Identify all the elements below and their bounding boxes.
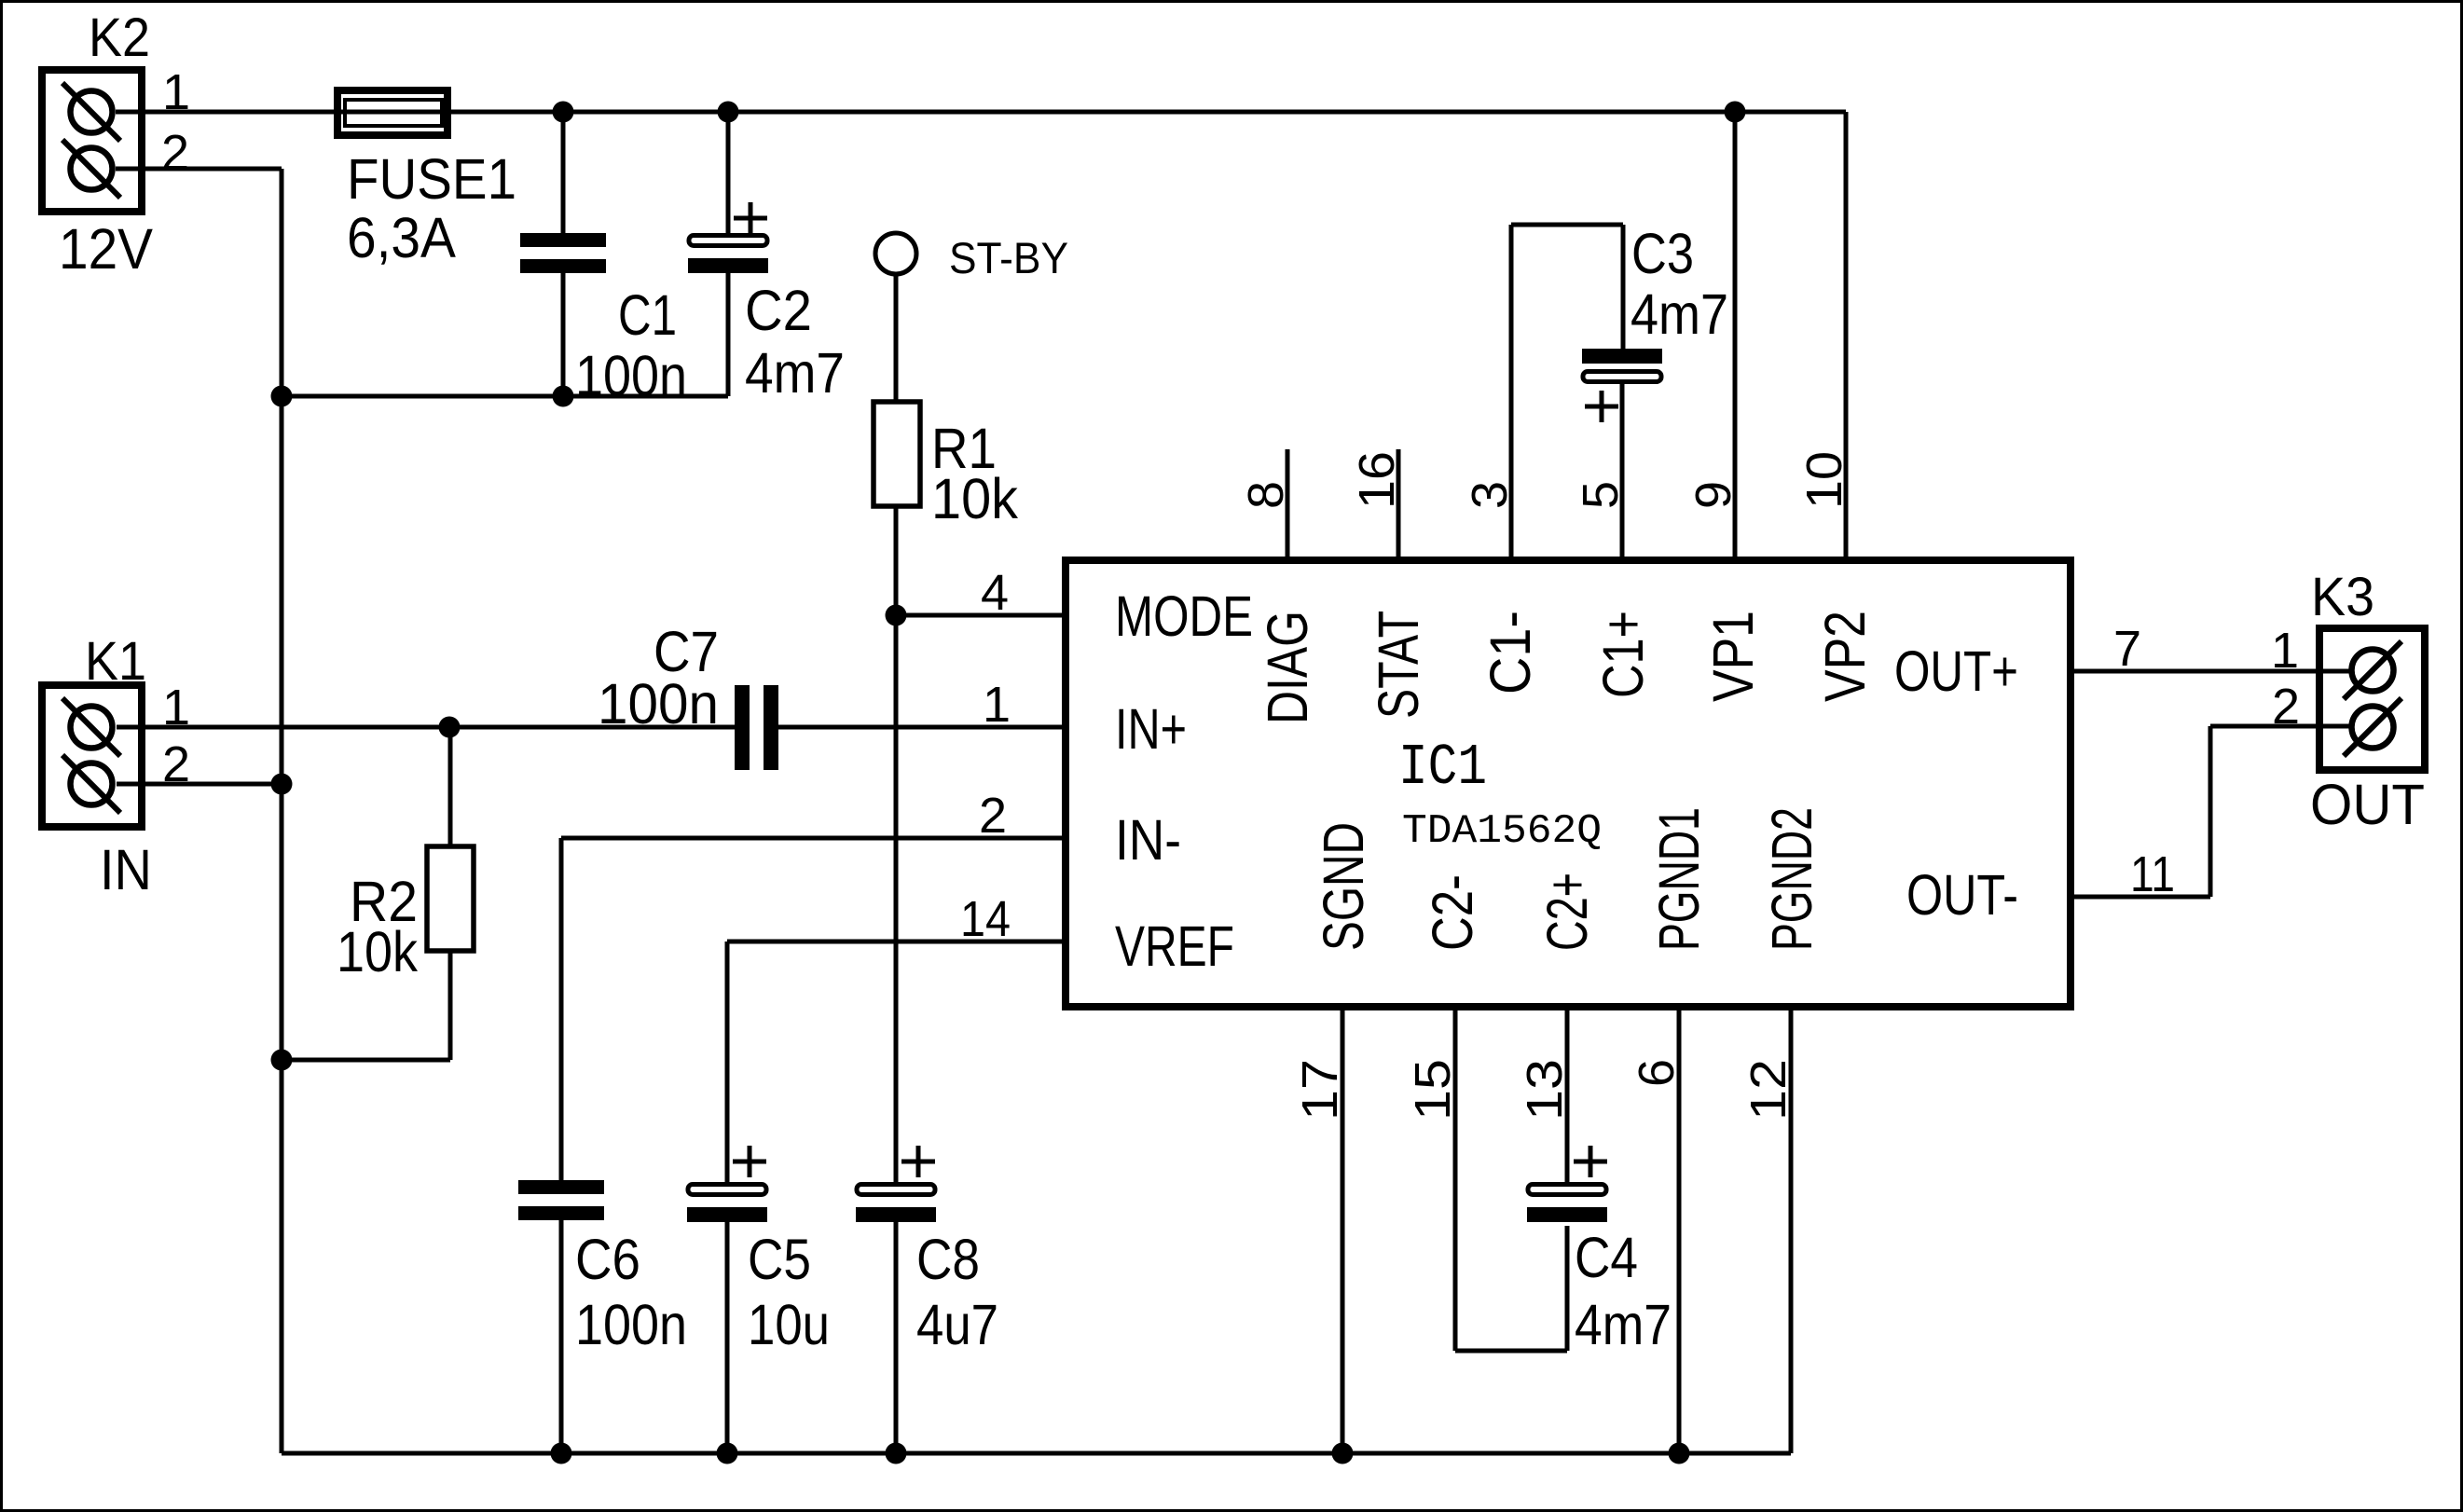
svg-text:VREF: VREF [1115,914,1234,978]
svg-text:STAT: STAT [1367,611,1430,719]
svg-text:12V: 12V [59,217,153,281]
svg-text:IN-: IN- [1115,808,1181,872]
svg-text:6,3A: 6,3A [347,206,456,269]
svg-text:5: 5 [1573,481,1629,509]
svg-text:10u: 10u [748,1293,830,1356]
svg-text:PGND1: PGND1 [1647,807,1711,951]
svg-text:OUT+: OUT+ [1894,639,2018,703]
svg-text:MODE: MODE [1115,584,1253,648]
svg-text:C2: C2 [745,279,812,342]
svg-text:1: 1 [162,64,190,120]
svg-text:6: 6 [1629,1059,1685,1087]
svg-text:4m7: 4m7 [745,341,845,405]
svg-text:C5: C5 [748,1228,811,1291]
svg-text:8: 8 [1238,481,1294,509]
svg-text:C6: C6 [575,1228,640,1291]
svg-text:ST-BY: ST-BY [949,233,1068,282]
svg-text:10k: 10k [931,467,1018,530]
svg-text:2: 2 [2272,679,2300,735]
svg-text:IN: IN [100,838,152,901]
svg-text:OUT: OUT [2310,773,2425,836]
svg-text:VP1: VP1 [1701,611,1765,702]
svg-text:1: 1 [162,680,190,735]
svg-text:100n: 100n [575,1293,687,1356]
svg-text:K3: K3 [2311,567,2374,627]
svg-text:C2-: C2- [1421,874,1484,951]
svg-text:TDA1562Q: TDA1562Q [1402,808,1602,855]
svg-text:10: 10 [1796,451,1852,509]
svg-text:13: 13 [1517,1059,1573,1120]
svg-text:C4: C4 [1575,1226,1638,1289]
svg-text:4m7: 4m7 [1575,1293,1672,1356]
svg-text:11: 11 [2130,846,2175,902]
svg-text:3: 3 [1462,481,1518,509]
svg-text:1: 1 [2271,623,2299,679]
svg-text:C2+: C2+ [1535,873,1599,951]
svg-text:PGND2: PGND2 [1760,807,1823,951]
svg-text:14: 14 [960,891,1011,947]
svg-text:4: 4 [981,565,1009,621]
svg-text:SGND: SGND [1312,822,1375,951]
svg-text:4u7: 4u7 [916,1293,998,1356]
svg-text:2: 2 [979,788,1007,844]
svg-text:1: 1 [983,677,1011,733]
svg-text:7: 7 [2113,621,2141,677]
svg-text:K2: K2 [89,7,150,68]
svg-text:100n: 100n [575,344,687,407]
svg-text:C1-: C1- [1479,611,1542,694]
svg-text:DIAG: DIAG [1256,611,1319,724]
svg-text:FUSE1: FUSE1 [347,147,516,211]
svg-text:16: 16 [1349,451,1405,509]
svg-text:15: 15 [1405,1059,1461,1120]
svg-text:IN+: IN+ [1115,697,1187,761]
svg-text:C8: C8 [916,1228,980,1291]
svg-text:2: 2 [161,125,189,181]
svg-text:C1: C1 [618,283,677,347]
svg-text:IC1: IC1 [1398,735,1487,801]
svg-text:4m7: 4m7 [1631,282,1728,346]
svg-text:C1+: C1+ [1591,611,1655,698]
svg-text:C3: C3 [1631,222,1694,285]
svg-text:2: 2 [162,736,190,792]
svg-text:17: 17 [1292,1059,1348,1120]
svg-text:100n: 100n [598,672,719,735]
svg-text:VP2: VP2 [1813,611,1877,702]
svg-text:OUT-: OUT- [1906,863,2018,927]
svg-text:12: 12 [1741,1059,1796,1120]
svg-text:10k: 10k [337,920,418,983]
svg-text:K1: K1 [85,631,146,692]
svg-text:9: 9 [1686,481,1741,509]
